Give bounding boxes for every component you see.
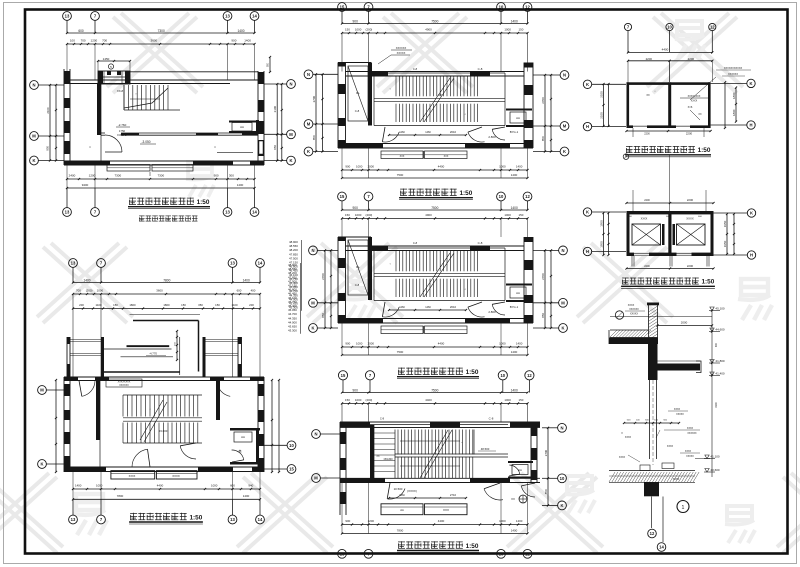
svg-text:K: K (749, 81, 752, 86)
svg-text:K: K (560, 503, 563, 508)
svg-text:950: 950 (46, 145, 50, 150)
svg-text:XXXXXX: XXXXXX (687, 433, 697, 435)
svg-text:48.500: 48.500 (481, 447, 490, 451)
svg-text:7300: 7300 (158, 29, 165, 33)
svg-text:14: 14 (252, 14, 257, 19)
svg-text:4400: 4400 (438, 342, 445, 346)
svg-text:850: 850 (321, 313, 325, 318)
svg-text:XX: XX (698, 113, 702, 116)
svg-text:1400: 1400 (516, 342, 523, 346)
svg-text:3600: 3600 (151, 39, 158, 43)
svg-text:K: K (311, 326, 314, 331)
svg-text:4400: 4400 (425, 398, 432, 402)
svg-text:XXXX: XXXX (691, 100, 698, 103)
svg-text:□: □ (89, 145, 91, 149)
svg-text:H: H (586, 249, 589, 254)
svg-text:13: 13 (71, 261, 76, 266)
svg-text:4400: 4400 (438, 165, 445, 169)
svg-text:AA: AA (241, 435, 245, 439)
svg-text:4900: 4900 (425, 213, 432, 217)
svg-text:1:50: 1:50 (190, 514, 203, 521)
svg-text:H: H (750, 253, 753, 258)
svg-text:7500: 7500 (431, 20, 438, 24)
svg-text:(200): (200) (366, 28, 373, 32)
svg-text:14: 14 (258, 261, 263, 266)
svg-text:X=6: X=6 (688, 105, 693, 109)
svg-text:10: 10 (500, 373, 505, 378)
svg-text:150: 150 (518, 213, 523, 217)
svg-text:C-8: C-8 (489, 417, 494, 421)
svg-text:(XXXX): (XXXX) (407, 489, 417, 493)
svg-text:900: 900 (345, 342, 350, 346)
svg-text:13: 13 (65, 210, 70, 215)
svg-text:1950: 1950 (723, 240, 727, 247)
svg-text:2710: 2710 (450, 493, 457, 497)
svg-text:13: 13 (225, 210, 230, 215)
svg-text:1400: 1400 (511, 389, 518, 393)
svg-text:900: 900 (353, 20, 359, 24)
svg-text:7300: 7300 (157, 174, 164, 178)
svg-text:1400: 1400 (244, 39, 251, 43)
svg-text:1000: 1000 (211, 484, 218, 488)
svg-text:12: 12 (527, 373, 532, 378)
svg-text:150: 150 (518, 28, 523, 32)
svg-text:12: 12 (650, 531, 655, 536)
svg-text:BYG-1: BYG-1 (510, 305, 519, 309)
svg-text:10: 10 (289, 443, 294, 448)
svg-text:(200): (200) (366, 213, 373, 217)
svg-text:1000: 1000 (355, 398, 362, 402)
svg-text:C-8: C-8 (478, 241, 483, 245)
svg-text:12: 12 (710, 25, 715, 30)
svg-text:7300: 7300 (114, 174, 121, 178)
svg-text:AA: AA (400, 508, 404, 512)
svg-text:1200: 1200 (89, 174, 96, 178)
svg-text:XXXXXX: XXXXXX (119, 384, 129, 387)
svg-text:(200): (200) (366, 398, 373, 402)
svg-text:1400: 1400 (511, 350, 518, 354)
svg-text:2200: 2200 (686, 132, 693, 136)
svg-text:C-8: C-8 (413, 67, 418, 71)
svg-text:15: 15 (340, 551, 345, 556)
svg-text:13: 13 (230, 261, 235, 266)
svg-text:150x300: 150x300 (383, 458, 393, 461)
svg-text:850: 850 (312, 135, 316, 140)
svg-text:13: 13 (230, 517, 235, 522)
svg-text:1400: 1400 (237, 183, 244, 187)
svg-text:XXXX: XXXX (625, 437, 632, 439)
svg-text:XXX: XXX (444, 155, 449, 158)
svg-text:2100: 2100 (273, 106, 277, 113)
svg-text:2200: 2200 (687, 264, 694, 268)
svg-text:1400: 1400 (83, 279, 90, 283)
svg-text:900: 900 (345, 519, 350, 523)
svg-text:150: 150 (345, 213, 350, 217)
svg-text:XX: XX (511, 497, 515, 501)
svg-text:1000: 1000 (355, 213, 362, 217)
svg-text:XXXX: XXXX (641, 218, 648, 221)
svg-text:1000: 1000 (504, 398, 511, 402)
svg-text:4900: 4900 (425, 28, 432, 32)
svg-text:41.800: 41.800 (715, 359, 725, 363)
svg-text:43.300: 43.300 (288, 329, 297, 333)
svg-text:-2.760: -2.760 (118, 123, 127, 127)
svg-text:AA: AA (516, 291, 520, 295)
svg-text:□: □ (214, 145, 216, 149)
svg-text:XXXXXXXXXXX: XXXXXXXXXXX (724, 67, 743, 70)
svg-text:XXXX: XXXX (619, 457, 626, 459)
svg-text:1000: 1000 (499, 519, 506, 523)
svg-text:XXXX: XXXX (686, 217, 694, 221)
svg-text:4400: 4400 (438, 519, 445, 523)
svg-text:1200: 1200 (91, 39, 98, 43)
svg-text:M: M (40, 388, 44, 393)
svg-text:C-8: C-8 (380, 417, 385, 421)
svg-text:1000: 1000 (97, 289, 104, 293)
svg-text:100: 100 (70, 39, 75, 43)
svg-text:1000: 1000 (356, 165, 363, 169)
svg-text:M: M (289, 132, 293, 137)
svg-text:1:50: 1:50 (460, 190, 473, 197)
svg-text:1000: 1000 (499, 165, 506, 169)
svg-text:900: 900 (231, 39, 236, 43)
svg-text:2700: 2700 (541, 97, 545, 104)
svg-text:2100: 2100 (46, 107, 50, 114)
svg-text:12: 12 (525, 551, 530, 556)
svg-text:10.500: 10.500 (394, 487, 403, 491)
svg-text:2200: 2200 (688, 57, 695, 61)
svg-text:XX: XX (376, 455, 380, 458)
svg-text:700: 700 (102, 39, 107, 43)
svg-text:2700: 2700 (544, 449, 548, 456)
svg-text:1000: 1000 (356, 342, 363, 346)
svg-text:15: 15 (341, 373, 346, 378)
svg-text:1950: 1950 (723, 220, 727, 227)
svg-text:1260: 1260 (399, 494, 405, 497)
svg-text:M: M (314, 476, 318, 481)
svg-text:4400: 4400 (157, 484, 164, 488)
svg-text:XXXXXX: XXXXXX (728, 73, 738, 76)
svg-text:7800: 7800 (117, 494, 124, 498)
svg-text:14: 14 (252, 210, 257, 215)
svg-text:2.860: 2.860 (488, 310, 496, 314)
svg-text:600: 600 (78, 29, 84, 33)
svg-text:900: 900 (345, 165, 350, 169)
svg-text:1:50: 1:50 (698, 147, 711, 154)
svg-text:K: K (750, 211, 753, 216)
svg-text:←: ← (461, 440, 464, 444)
svg-text:N: N (560, 425, 563, 430)
svg-text:1400: 1400 (516, 165, 523, 169)
svg-text:H: H (749, 123, 752, 128)
svg-text:1000: 1000 (355, 28, 362, 32)
svg-text:M: M (307, 122, 311, 127)
svg-text:3100: 3100 (715, 402, 718, 408)
svg-text:XX: XX (646, 94, 650, 97)
svg-text:2100: 2100 (599, 112, 603, 119)
svg-text:14: 14 (659, 545, 664, 550)
svg-text:XXXX: XXXX (685, 451, 692, 453)
svg-text:700: 700 (76, 289, 81, 293)
svg-text:N: N (563, 73, 566, 78)
svg-text:1400: 1400 (75, 484, 82, 488)
svg-text:XXX: XXX (443, 508, 449, 512)
svg-text:XXX: XXX (400, 155, 405, 158)
svg-text:41.400: 41.400 (715, 371, 725, 375)
svg-text:1:50: 1:50 (466, 543, 479, 550)
svg-text:1950: 1950 (599, 220, 603, 227)
svg-text:10: 10 (667, 25, 672, 30)
svg-text:2100: 2100 (599, 91, 603, 98)
svg-text:150: 150 (215, 303, 220, 307)
svg-text:700: 700 (81, 39, 86, 43)
svg-text:300: 300 (229, 174, 234, 178)
svg-text:950: 950 (273, 145, 277, 150)
svg-text:900: 900 (353, 389, 359, 393)
svg-text:2400: 2400 (69, 174, 76, 178)
svg-text:N: N (314, 432, 317, 437)
svg-text:1460: 1460 (425, 306, 431, 309)
svg-text:XXXX: XXXX (673, 478, 680, 481)
svg-text:1450: 1450 (103, 57, 110, 61)
svg-text:2610: 2610 (450, 130, 457, 134)
svg-text:200: 200 (249, 303, 254, 307)
svg-text:10: 10 (560, 476, 565, 481)
svg-text:2000: 2000 (681, 321, 688, 325)
svg-text:-3.050: -3.050 (141, 140, 150, 144)
svg-text:7800: 7800 (163, 279, 170, 283)
svg-text:43.300: 43.300 (289, 306, 298, 310)
svg-text:13: 13 (65, 14, 70, 19)
svg-text:1400: 1400 (511, 20, 518, 24)
svg-text:4400: 4400 (662, 47, 669, 51)
svg-text:1800: 1800 (163, 303, 170, 307)
svg-text:K: K (586, 210, 589, 215)
svg-text:900: 900 (214, 174, 219, 178)
svg-text:850: 850 (541, 313, 545, 318)
svg-text:C-8: C-8 (355, 109, 360, 113)
svg-text:150: 150 (518, 398, 523, 402)
svg-text:2700: 2700 (321, 273, 325, 280)
svg-text:1000: 1000 (499, 342, 506, 346)
svg-text:1:50: 1:50 (466, 369, 479, 376)
svg-text:3600: 3600 (156, 289, 163, 293)
svg-text:-4.770: -4.770 (149, 352, 157, 356)
svg-text:XXXXXX: XXXXXX (629, 308, 639, 311)
svg-text:↑: ↑ (135, 92, 137, 96)
svg-text:13: 13 (71, 517, 76, 522)
svg-text:2700: 2700 (312, 96, 316, 103)
svg-text:1:50: 1:50 (197, 199, 210, 206)
svg-text:M: M (561, 300, 565, 305)
svg-text:850: 850 (544, 489, 548, 494)
svg-text:N: N (289, 82, 292, 87)
svg-text:150: 150 (113, 303, 118, 307)
svg-text:200: 200 (79, 303, 84, 307)
svg-text:2200: 2200 (644, 265, 650, 268)
svg-text:N: N (311, 248, 314, 253)
svg-text:C-8: C-8 (478, 67, 483, 71)
svg-text:12: 12 (525, 194, 530, 199)
svg-text:12: 12 (525, 5, 530, 10)
svg-text:XXXXX: XXXXX (630, 313, 638, 316)
svg-text:K: K (561, 326, 564, 331)
svg-text:XX-8: XX-8 (117, 89, 124, 93)
svg-text:850: 850 (541, 136, 545, 141)
svg-text:350: 350 (198, 303, 203, 307)
svg-text:1400: 1400 (237, 29, 244, 33)
svg-text:DL: DL (356, 265, 360, 269)
svg-text:2610: 2610 (450, 305, 457, 309)
svg-text:44.600: 44.600 (715, 327, 725, 331)
svg-text:M: M (32, 134, 36, 139)
svg-text:1000: 1000 (96, 484, 103, 488)
svg-text:XXXXX: XXXXX (676, 414, 684, 416)
svg-text:10: 10 (499, 5, 504, 10)
svg-text:15: 15 (289, 467, 294, 472)
svg-text:400: 400 (251, 289, 256, 293)
svg-text:300: 300 (715, 342, 718, 347)
svg-text:N: N (32, 83, 35, 88)
svg-text:1: 1 (682, 505, 685, 511)
svg-text:1400: 1400 (516, 519, 523, 523)
svg-text:1950: 1950 (599, 241, 603, 248)
svg-text:900: 900 (353, 206, 359, 210)
svg-text:C-8: C-8 (413, 241, 418, 245)
svg-text:2200: 2200 (687, 198, 694, 202)
svg-text:45.100: 45.100 (715, 306, 725, 310)
svg-text:150: 150 (345, 398, 350, 402)
svg-text:1460: 1460 (425, 131, 431, 134)
svg-text:1400: 1400 (511, 529, 518, 533)
svg-text:AA: AA (240, 125, 244, 129)
svg-text:1800: 1800 (732, 92, 736, 99)
svg-text:13: 13 (225, 14, 230, 19)
svg-text:XXXX: XXXX (628, 304, 635, 307)
svg-text:7500: 7500 (431, 389, 438, 393)
svg-text:1260: 1260 (399, 306, 405, 309)
svg-text:1000: 1000 (504, 28, 511, 32)
svg-text:H: H (586, 124, 589, 129)
svg-text:7500: 7500 (397, 350, 404, 354)
svg-text:41.100: 41.100 (710, 454, 720, 458)
svg-text:9400: 9400 (82, 183, 89, 187)
svg-text:940: 940 (248, 484, 253, 488)
svg-text:C-8: C-8 (355, 283, 360, 287)
svg-text:2200: 2200 (646, 57, 653, 61)
svg-text:1000: 1000 (504, 213, 511, 217)
svg-text:1260: 1260 (399, 131, 405, 134)
svg-text:2200: 2200 (644, 199, 650, 202)
svg-text:1400: 1400 (243, 494, 250, 498)
svg-text:XX: XX (438, 93, 442, 97)
svg-text:2700: 2700 (541, 273, 545, 280)
svg-text:M: M (311, 300, 315, 305)
svg-text:7500: 7500 (431, 206, 438, 210)
svg-text:1:50: 1:50 (702, 279, 715, 286)
svg-text:40.600: 40.600 (710, 468, 720, 472)
svg-text:K: K (586, 82, 589, 87)
svg-text:K: K (40, 462, 43, 467)
svg-text:XXXX: XXXX (687, 428, 694, 430)
svg-text:150: 150 (181, 303, 186, 307)
svg-text:XXXXXX: XXXXXX (396, 46, 407, 50)
svg-text:AA: AA (516, 116, 520, 120)
svg-text:N: N (307, 72, 310, 77)
svg-text:DL: DL (356, 91, 360, 95)
svg-text:XXXX: XXXX (172, 474, 180, 478)
svg-text:600: 600 (237, 289, 242, 293)
svg-text:14: 14 (258, 517, 263, 522)
svg-text:2.860: 2.860 (488, 135, 496, 139)
svg-text:K: K (563, 149, 566, 154)
svg-text:(200): (200) (86, 289, 93, 293)
svg-text:XXXXX: XXXXX (397, 51, 406, 55)
svg-text:10: 10 (499, 194, 504, 199)
svg-text:7500: 7500 (397, 173, 404, 177)
svg-text:XXXX: XXXX (129, 475, 136, 478)
svg-text:K: K (289, 158, 292, 163)
svg-text:XXXX: XXXX (667, 446, 674, 448)
svg-text:K: K (32, 158, 35, 163)
svg-text:2200: 2200 (644, 133, 650, 136)
svg-text:1400: 1400 (243, 279, 250, 283)
svg-text:15: 15 (340, 194, 345, 199)
svg-text:M: M (563, 124, 567, 129)
svg-text:XXXX: XXXX (674, 409, 681, 411)
svg-text:1400: 1400 (511, 206, 518, 210)
svg-text:1800: 1800 (129, 303, 136, 307)
svg-text:XXXXX: XXXXX (686, 456, 694, 458)
svg-text:7800: 7800 (397, 529, 404, 533)
svg-text:1400: 1400 (511, 173, 518, 177)
svg-text:BYG-1: BYG-1 (510, 130, 519, 134)
svg-text:1800: 1800 (732, 109, 736, 116)
svg-text:15: 15 (340, 5, 345, 10)
svg-text:K: K (307, 149, 310, 154)
svg-text:10: 10 (499, 551, 504, 556)
svg-text:23.600: 23.600 (159, 429, 168, 433)
svg-text:N: N (561, 248, 564, 253)
svg-text:150: 150 (345, 28, 350, 32)
